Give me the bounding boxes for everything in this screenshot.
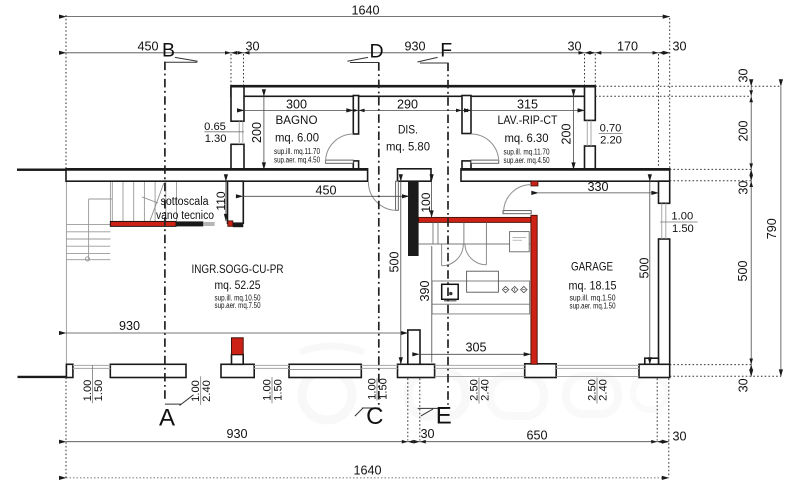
dim 305 bbox=[419, 353, 530, 355]
svg-text:30: 30 bbox=[736, 68, 750, 82]
svg-text:30: 30 bbox=[736, 181, 750, 195]
svg-text:30: 30 bbox=[245, 40, 259, 54]
garage mid pillar bbox=[525, 364, 557, 378]
dim 200 lav bbox=[573, 96, 575, 169]
svg-text:A: A bbox=[159, 405, 175, 432]
kitchen north red wall bbox=[419, 217, 537, 222]
garage door 1 sill bbox=[435, 365, 525, 368]
red square sottoscala bbox=[228, 221, 233, 226]
counter outline bbox=[432, 281, 530, 304]
sottoscala red bar bbox=[110, 221, 176, 226]
dotted connectors right chain bbox=[595, 86, 781, 96]
chain interior arrows top bbox=[225, 51, 753, 444]
svg-text:sup.ill. mq.11.70: sup.ill. mq.11.70 bbox=[504, 147, 550, 156]
witness wall 30 top-right bbox=[585, 54, 596, 85]
svg-text:500: 500 bbox=[388, 251, 402, 272]
dim 100 bbox=[431, 181, 433, 217]
svg-text:30: 30 bbox=[672, 40, 686, 54]
party wall line bottom-left bbox=[18, 376, 67, 378]
kitchen double door bbox=[442, 244, 487, 266]
kitchen top cabinets dividers bbox=[433, 222, 486, 244]
kitchen east red wall bbox=[531, 215, 537, 364]
witness right wall bottom bbox=[657, 379, 669, 477]
svg-text:1.50: 1.50 bbox=[672, 223, 694, 235]
cross wall below (sottoscala right) bbox=[228, 181, 244, 223]
svg-text:200: 200 bbox=[736, 120, 750, 141]
svg-text:300: 300 bbox=[286, 98, 307, 112]
dim 330 bbox=[538, 192, 658, 194]
kitchen pillar bbox=[408, 330, 420, 365]
cross wall black cap bbox=[233, 223, 244, 227]
svg-text:F: F bbox=[440, 40, 452, 62]
svg-text:1.00: 1.00 bbox=[671, 211, 693, 223]
kitchen west wall solid bbox=[408, 181, 419, 256]
svg-text:D: D bbox=[370, 41, 384, 63]
bottom window A glazing bbox=[73, 365, 110, 368]
section line D-C bbox=[378, 62, 380, 407]
svg-text:30: 30 bbox=[420, 427, 434, 441]
room labels bbox=[192, 113, 617, 293]
ingr left edge line bbox=[65, 171, 67, 364]
right outer wall below window bbox=[659, 239, 670, 364]
svg-text:B: B bbox=[162, 40, 175, 62]
svg-text:2.20: 2.20 bbox=[600, 134, 622, 146]
svg-text:30: 30 bbox=[736, 378, 750, 392]
svg-text:mq. 6.00: mq. 6.00 bbox=[275, 131, 319, 145]
svg-text:1.50: 1.50 bbox=[273, 379, 285, 401]
bottom right corner pedestal bbox=[639, 364, 670, 377]
svg-text:930: 930 bbox=[404, 40, 425, 54]
svg-text:mq. 5.80: mq. 5.80 bbox=[386, 140, 430, 154]
bottom wall segment bbox=[110, 364, 186, 377]
entrance pedestal bbox=[221, 364, 254, 377]
sottoscala labels bbox=[156, 196, 214, 222]
hob block bbox=[467, 271, 499, 292]
dim chain bottom bbox=[66, 441, 669, 443]
svg-text:INGR.SOGG-CU-PR: INGR.SOGG-CU-PR bbox=[192, 262, 284, 276]
svg-text:110: 110 bbox=[214, 191, 228, 210]
witness right wall top bbox=[659, 18, 670, 169]
svg-text:330: 330 bbox=[587, 180, 608, 194]
party wall line top-left bbox=[17, 168, 66, 170]
svg-text:vano tecnico: vano tecnico bbox=[156, 210, 214, 222]
bottom window C glazing bbox=[361, 365, 397, 368]
door dis south: leaf + arc bbox=[368, 181, 398, 210]
witness wall 30 top-left bbox=[231, 54, 244, 85]
dim 790 bbox=[780, 86, 782, 376]
boiler box bbox=[510, 232, 530, 252]
lav right wall upper bbox=[585, 86, 596, 120]
right outer wall above window bbox=[659, 181, 670, 203]
svg-text:1.50: 1.50 bbox=[378, 378, 390, 400]
svg-text:sottoscala: sottoscala bbox=[161, 196, 210, 208]
svg-text:305: 305 bbox=[465, 341, 486, 355]
watermark bbox=[300, 346, 667, 420]
stair lower treads bbox=[66, 225, 110, 260]
sink bbox=[442, 284, 459, 300]
middle wall stub bbox=[398, 169, 432, 181]
svg-text:sup.aer. mq.4.50: sup.aer. mq.4.50 bbox=[274, 155, 320, 164]
stair circle marker bbox=[85, 257, 89, 261]
stair leader line bbox=[142, 197, 158, 203]
witness kitchen wall bottom bbox=[408, 379, 420, 441]
garage window glazing bbox=[662, 204, 666, 239]
svg-text:315: 315 bbox=[517, 98, 538, 112]
garage door sill bottom lines bbox=[435, 376, 639, 378]
top outer wall band bbox=[231, 86, 595, 96]
kitchen cased opening line bbox=[419, 243, 531, 245]
dim 200 bagno bbox=[263, 96, 265, 169]
window labels bbox=[204, 121, 694, 235]
dim 390 bbox=[431, 246, 433, 363]
burners bbox=[502, 286, 527, 292]
counter lower line bbox=[432, 304, 530, 314]
svg-text:mq. 18.15: mq. 18.15 bbox=[569, 279, 617, 293]
partition dis/lav stub bbox=[462, 161, 471, 171]
svg-text:200: 200 bbox=[560, 123, 574, 144]
dim 290 bbox=[359, 109, 462, 111]
svg-text:E: E bbox=[436, 402, 452, 429]
door bagno: leaf + arc bbox=[326, 134, 354, 163]
svg-text:170: 170 bbox=[617, 40, 638, 54]
dim 450 bbox=[243, 195, 409, 197]
lav right wall lower bbox=[585, 146, 596, 171]
svg-text:2.40: 2.40 bbox=[201, 380, 213, 402]
door corridor-garage: leaf + arc bbox=[503, 185, 531, 214]
svg-text:1640: 1640 bbox=[351, 4, 379, 18]
svg-text:2.40: 2.40 bbox=[480, 379, 492, 401]
dim right chain bbox=[750, 86, 752, 376]
middle wall right segment bbox=[461, 169, 670, 181]
svg-text:BAGNO: BAGNO bbox=[276, 113, 318, 127]
dim 1640 bottom dotted bbox=[66, 477, 669, 479]
svg-text:200: 200 bbox=[250, 122, 264, 143]
svg-text:930: 930 bbox=[119, 319, 140, 333]
svg-text:1.30: 1.30 bbox=[205, 133, 227, 145]
garage door 2 sill bbox=[556, 365, 639, 368]
stair left edge bbox=[109, 181, 111, 221]
bottom right corner step bbox=[645, 358, 659, 366]
svg-text:290: 290 bbox=[397, 98, 418, 112]
top wall outer edge thicker bbox=[231, 85, 595, 88]
bottom window B glazing bbox=[254, 365, 289, 368]
section line B-A bbox=[164, 62, 166, 400]
main middle wall left segment bbox=[66, 169, 368, 181]
lav window glazing bbox=[587, 121, 591, 146]
svg-text:100: 100 bbox=[419, 192, 433, 212]
svg-text:500: 500 bbox=[638, 257, 652, 278]
svg-text:0.70: 0.70 bbox=[600, 122, 622, 134]
bottom window block bbox=[289, 364, 361, 377]
partition bagno/dis stub bbox=[353, 161, 358, 171]
svg-text:450: 450 bbox=[315, 183, 336, 197]
entrance jamb white part bbox=[232, 355, 244, 365]
stair direction line bbox=[150, 183, 164, 221]
svg-text:650: 650 bbox=[526, 429, 547, 443]
svg-text:930: 930 bbox=[226, 427, 247, 441]
partition dis/lav upper bbox=[462, 96, 471, 134]
svg-text:LAV.-RIP-CT: LAV.-RIP-CT bbox=[498, 113, 558, 127]
dim 500 kitchen bbox=[400, 181, 402, 364]
dim 110 bbox=[225, 181, 227, 221]
svg-text:30: 30 bbox=[567, 40, 581, 54]
svg-text:1640: 1640 bbox=[353, 464, 381, 478]
section line F-E bbox=[447, 63, 449, 405]
sottoscala black bar bbox=[176, 221, 203, 226]
bagno left wall upper bbox=[231, 86, 244, 121]
middle wall outer edge thicker bbox=[17, 169, 368, 171]
svg-text:500: 500 bbox=[736, 260, 750, 281]
svg-text:1.50: 1.50 bbox=[93, 380, 105, 402]
witness left bottom bbox=[65, 378, 67, 480]
bagno window glazing bbox=[239, 121, 243, 144]
section letters bbox=[162, 40, 452, 63]
dim 500 garage bbox=[649, 181, 651, 364]
dim line 1640 top bbox=[66, 16, 670, 18]
svg-text:C: C bbox=[366, 403, 383, 430]
bottom pillar left bbox=[66, 364, 73, 377]
svg-text:390: 390 bbox=[418, 280, 432, 301]
svg-text:GARAGE: GARAGE bbox=[571, 260, 613, 274]
svg-text:sup.aer. mq.1.50: sup.aer. mq.1.50 bbox=[570, 302, 616, 311]
svg-text:sup.aer. mq.7.50: sup.aer. mq.7.50 bbox=[215, 301, 261, 310]
svg-text:0.65: 0.65 bbox=[204, 121, 226, 133]
dim 315 bbox=[471, 109, 585, 111]
dim chain top bbox=[66, 52, 670, 54]
bagno left wall lower bbox=[231, 144, 244, 170]
red jamb corridor door bbox=[531, 181, 538, 186]
rotated dim texts bbox=[214, 68, 779, 392]
witness left top bbox=[65, 15, 67, 170]
section markers ticks bbox=[165, 57, 448, 416]
svg-text:450: 450 bbox=[137, 40, 158, 54]
svg-text:sup.aer. mq.4.50: sup.aer. mq.4.50 bbox=[504, 156, 550, 165]
svg-text:30: 30 bbox=[672, 430, 686, 444]
stair landing bbox=[89, 199, 113, 260]
svg-text:DIS.: DIS. bbox=[398, 123, 418, 137]
svg-text:mq. 6.30: mq. 6.30 bbox=[505, 131, 549, 145]
stair treads upper flight bbox=[112, 181, 176, 221]
svg-text:2.40: 2.40 bbox=[598, 379, 610, 401]
dim 300 bbox=[244, 109, 353, 111]
window block inner line bbox=[289, 368, 361, 370]
sottoscala gray bar bbox=[203, 222, 214, 226]
svg-text:mq. 52.25: mq. 52.25 bbox=[215, 278, 261, 292]
red jamb entrance bbox=[232, 338, 244, 355]
kitchen pedestal bbox=[398, 364, 435, 377]
dim 930 mid bbox=[66, 332, 408, 334]
rotated bottom window labels bbox=[82, 378, 610, 402]
partition bagno/dis upper bbox=[353, 96, 358, 135]
svg-text:790: 790 bbox=[765, 218, 779, 239]
door lav: leaf + arc bbox=[471, 134, 499, 163]
